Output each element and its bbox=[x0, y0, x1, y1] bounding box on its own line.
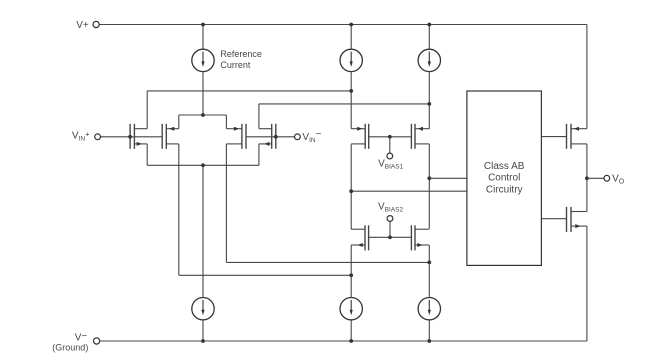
svg-text:Class AB: Class AB bbox=[484, 161, 525, 172]
svg-text:VO: VO bbox=[612, 173, 625, 185]
svg-text:V+: V+ bbox=[76, 20, 89, 31]
svg-text:VIN+: VIN+ bbox=[72, 129, 90, 142]
svg-text:Control: Control bbox=[488, 172, 520, 183]
svg-text:Current: Current bbox=[220, 60, 251, 70]
svg-text:VBIAS2: VBIAS2 bbox=[378, 201, 403, 213]
svg-text:Reference: Reference bbox=[220, 49, 262, 59]
svg-text:VBIAS1: VBIAS1 bbox=[378, 158, 403, 170]
svg-text:(Ground): (Ground) bbox=[52, 343, 88, 353]
svg-text:Circuitry: Circuitry bbox=[486, 184, 523, 195]
svg-text:VIN−: VIN− bbox=[302, 129, 321, 144]
